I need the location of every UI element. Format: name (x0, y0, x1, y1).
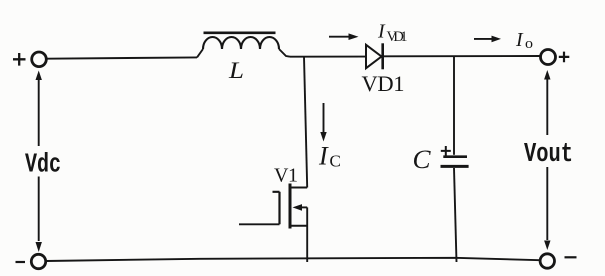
wire top-left rail (47, 57, 197, 58)
node: + output terminal (top-right) (541, 50, 556, 65)
node: - input terminal (bottom-left) (31, 254, 45, 268)
svg-text:C: C (413, 145, 432, 174)
source Vdc arrow (up head) (36, 71, 42, 81)
output Vout arrow (up head) (544, 70, 550, 80)
svg-text:o: o (525, 36, 533, 52)
wire Vout upper (546, 79, 548, 136)
svg-text:I: I (318, 142, 329, 171)
node: - output terminal (bottom-right) (540, 254, 554, 268)
capacitor C (441, 157, 469, 167)
label - (output negative) (565, 256, 577, 258)
wire switch branch (drain lead from top rail) (304, 57, 307, 188)
current arrow I_o (474, 36, 501, 43)
svg-text:L: L (228, 58, 244, 83)
output Vout arrow (down head) (544, 241, 550, 251)
label + (input positive) (13, 53, 26, 66)
svg-text:VD1: VD1 (387, 29, 408, 45)
source Vdc arrow (down head) (36, 242, 42, 252)
transistor V1 (MOSFET switch) (239, 184, 307, 263)
body arrow of V1 (293, 204, 303, 211)
wire inductor to diode (290, 56, 366, 58)
node: + input terminal (top-left) (32, 52, 47, 67)
svg-text:I: I (515, 29, 524, 51)
current arrow I_VD1 (329, 33, 359, 40)
wire capacitor branch (top) (453, 56, 455, 155)
wire diode to output terminal (383, 55, 540, 57)
wire Vout lower (546, 167, 548, 240)
wire Vdc upper (38, 79, 40, 146)
label - (input negative) (16, 261, 26, 263)
current arrow I_C (320, 103, 326, 142)
svg-text:V1: V1 (274, 165, 298, 187)
label + (output positive) (559, 52, 570, 63)
diode VD1 (366, 43, 383, 69)
svg-text:I: I (377, 21, 386, 43)
label + (capacitor polarity) (441, 146, 451, 156)
svg-text:VD1: VD1 (362, 71, 405, 96)
wire bottom rail (46, 258, 540, 261)
wire Vdc lower (38, 177, 40, 242)
svg-text:C: C (330, 152, 341, 171)
inductor L (197, 33, 290, 58)
svg-text:Vdc: Vdc (25, 151, 61, 181)
wire capacitor branch (bottom) (454, 168, 457, 262)
svg-text:Vout: Vout (524, 140, 573, 170)
